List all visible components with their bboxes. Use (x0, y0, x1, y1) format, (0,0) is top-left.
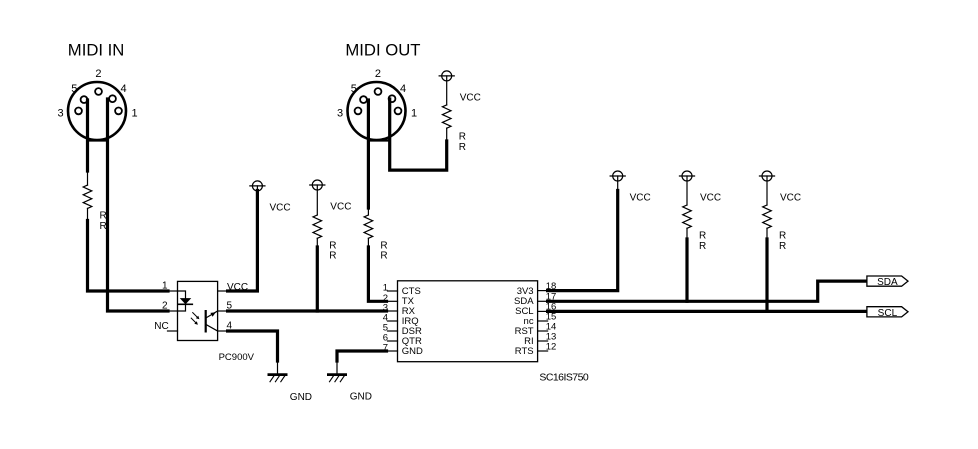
svg-text:5: 5 (71, 83, 77, 95)
U2 pin 5 stub (218, 310, 228, 312)
J1 pin number 1 (132, 107, 138, 119)
U1 pin name RTS (515, 346, 534, 357)
U1 pin 15 stub (538, 320, 548, 322)
U1 pin 5 stub (388, 330, 398, 332)
svg-text:VCC: VCC (630, 192, 651, 203)
R6 value label R (779, 241, 786, 252)
VCC supply symbol for U2 (250, 181, 265, 191)
svg-text:GND: GND (402, 346, 423, 357)
U1 pin name nc (524, 316, 534, 327)
R5 value label R (699, 241, 706, 252)
U1 pin name SCL (515, 306, 533, 317)
U1 pin 1 stub (388, 290, 398, 292)
U1 pin number 18 (546, 281, 557, 292)
wire U2 pin5 to U1 RX net (228, 309, 387, 312)
U2 pin number 1 (162, 281, 168, 292)
label MIDI IN (68, 41, 125, 60)
U1 pin number 6 (383, 333, 388, 344)
SCL node connector flag (867, 307, 908, 317)
U2 NC label (154, 321, 168, 332)
svg-text:GND: GND (350, 392, 372, 403)
U1 pin 3 stub (388, 310, 398, 312)
VCC label for R5 supply (700, 193, 721, 204)
R2 value label R (459, 142, 466, 153)
U1 pin 2 stub (388, 300, 398, 302)
U2 value label PC900V (219, 352, 255, 363)
R6 name label R (779, 231, 786, 242)
U2 pin number 2 (162, 300, 168, 311)
U1 pin number 1 (383, 283, 388, 294)
svg-text:R: R (380, 240, 387, 251)
U1 pin number 7 (383, 343, 388, 354)
VCC supply symbol for 3V3 (610, 171, 625, 191)
VCC label for R3 supply (330, 202, 351, 213)
R2 name label R (459, 132, 466, 143)
U2 phototransistor (206, 311, 218, 331)
label MIDI OUT (345, 41, 420, 60)
U1 pin name RI (524, 336, 534, 347)
R3 value label R (329, 251, 336, 262)
svg-text:2: 2 (162, 300, 168, 311)
wire U2 pin4 to ground (228, 331, 278, 361)
svg-text:3: 3 (337, 107, 343, 119)
svg-text:1: 1 (411, 107, 417, 119)
svg-text:NC: NC (154, 321, 168, 332)
resistor R3 (313, 215, 322, 247)
svg-text:12: 12 (546, 341, 557, 352)
J1 pin number 2 (95, 68, 101, 80)
VCC supply symbol above R2 (439, 71, 454, 81)
U1 pin number 2 (383, 293, 388, 304)
U1 pin 13 stub (538, 340, 548, 342)
svg-text:4: 4 (121, 83, 127, 95)
wire R6 to SCL net junction (765, 239, 768, 311)
U1 pin name RX (402, 306, 416, 317)
U1 pin 7 stub (388, 350, 398, 352)
U2 internal LED (178, 291, 193, 311)
U2 pin 1 stub (168, 290, 178, 292)
svg-text:R: R (329, 251, 336, 262)
U2 pin 4 stub (218, 330, 228, 332)
U2 pin 2 stub (168, 310, 178, 312)
svg-text:R: R (459, 142, 466, 153)
optocoupler U2 PC900V body (178, 281, 218, 340)
IC U1 SC16IS750 body (398, 281, 538, 362)
svg-text:R: R (380, 251, 387, 262)
U1 pin name DSR (402, 326, 422, 337)
U2 light arrow b (191, 318, 198, 325)
R1 value label R (100, 221, 107, 232)
J2 pin number 4 (400, 83, 406, 95)
svg-text:5: 5 (351, 83, 357, 95)
R5 name label R (699, 231, 706, 242)
ground symbol GND1 (269, 361, 286, 382)
svg-text:MIDI IN: MIDI IN (68, 41, 125, 60)
VCC supply symbol for R3 (310, 180, 325, 215)
U1 value label SC16IS750 (539, 371, 588, 383)
wire J1 pin4 down to U1 pin2 (108, 99, 169, 311)
svg-text:SCL: SCL (878, 308, 898, 319)
U2 VCC pin label (227, 282, 248, 293)
svg-text:VCC: VCC (270, 203, 291, 214)
U1 pin 6 stub (388, 340, 398, 342)
svg-text:SDA: SDA (877, 277, 898, 288)
U1 pin number 17 (546, 291, 557, 302)
svg-text:2: 2 (95, 68, 101, 80)
J2 pin number 3 (337, 107, 343, 119)
U2 pin number 4 (227, 321, 233, 332)
U1 pin number 15 (546, 311, 557, 322)
U1 pin name GND (402, 346, 423, 357)
U1 pin name SDA (514, 296, 534, 307)
resistor R6 (763, 205, 772, 239)
svg-text:PC900V: PC900V (219, 352, 255, 363)
MIDI OUT connector J2 (348, 82, 406, 140)
U1 pin number 3 (383, 303, 388, 314)
U1 pin 4 stub (388, 320, 398, 322)
wire R4 to U1 TX pin (368, 247, 386, 301)
U1 pin name IRQ (402, 316, 419, 327)
wire J2 pin5 down to R4 (367, 100, 370, 208)
wire SDA net U1 pin17 to connector (548, 281, 867, 301)
svg-text:RTS: RTS (515, 346, 534, 357)
ground symbol GND2 (328, 361, 345, 382)
resistor R5 (683, 205, 692, 239)
wire GND2 to U1 GND pin (337, 351, 387, 361)
U1 pin name CTS (402, 286, 421, 297)
svg-text:R: R (329, 240, 336, 251)
U1 pin 17 stub (538, 300, 548, 302)
GND1 label (290, 392, 312, 403)
svg-text:R: R (779, 231, 786, 242)
SDA node connector flag (867, 276, 908, 286)
U1 pin number 16 (546, 302, 557, 313)
wire R1 to U1 pin1 (88, 221, 169, 292)
U1 pin number 5 (383, 323, 388, 334)
U2 VCC pin stub (218, 290, 228, 292)
U1 pin number 14 (546, 321, 557, 332)
VCC label for R6 supply (780, 193, 801, 204)
U1 pin name TX (402, 296, 415, 307)
svg-text:3: 3 (57, 107, 63, 119)
R3 name label R (329, 240, 336, 251)
J2 pin number 1 (411, 107, 417, 119)
svg-text:VCC: VCC (780, 193, 801, 204)
svg-text:R: R (100, 210, 107, 221)
J2 pin number 5 (351, 83, 357, 95)
svg-text:7: 7 (383, 343, 388, 354)
svg-text:1: 1 (132, 107, 138, 119)
R4 value label R (380, 251, 387, 262)
U2 pin 3 NC stub (168, 330, 178, 332)
resistor R4 (364, 208, 373, 247)
J2 pin number 2 (375, 68, 381, 80)
VCC label for 3V3 supply (630, 192, 651, 203)
R4 name label R (380, 240, 387, 251)
svg-text:GND: GND (290, 392, 312, 403)
wire R5 to SDA net junction (685, 239, 688, 301)
R1 name label R (100, 210, 107, 221)
J1 pin number 4 (121, 83, 127, 95)
svg-text:R: R (699, 231, 706, 242)
wire R3 to RX net junction (316, 247, 319, 311)
SDA node label (877, 277, 898, 288)
GND2 label (350, 392, 372, 403)
wire SCL net U1 pin16 to connector (548, 310, 867, 313)
U1 pin number 4 (383, 313, 388, 324)
svg-text:1: 1 (162, 281, 168, 292)
svg-text:VCC: VCC (330, 202, 351, 213)
U1 pin name RST (515, 326, 534, 337)
U1 pin name QTR (402, 336, 422, 347)
U1 pin 14 stub (538, 330, 548, 332)
U1 pin number 13 (546, 331, 557, 342)
J1 pin number 3 (57, 107, 63, 119)
MIDI IN connector J1 (68, 82, 126, 140)
svg-text:VCC: VCC (700, 193, 721, 204)
VCC label above R2 (460, 93, 481, 104)
J1 pin number 5 (71, 83, 77, 95)
U1 pin 18 stub (538, 290, 548, 292)
svg-text:R: R (699, 241, 706, 252)
VCC supply symbol for R6 (760, 171, 775, 205)
VCC label for U2 supply (270, 203, 291, 214)
resistor R1 (83, 171, 92, 221)
SCL node label (878, 308, 898, 319)
wire J1 pin5 down to R1 (86, 100, 89, 171)
resistor R2 (442, 76, 451, 141)
VCC supply symbol for R5 (680, 171, 695, 205)
wire J2 pin4 to R2 bottom (390, 99, 447, 170)
svg-text:R: R (100, 221, 107, 232)
U2 pin number 5 (227, 300, 233, 311)
wire VCC to U1 pin18 (548, 191, 618, 291)
U1 pin name 3V3 (517, 286, 534, 297)
wire VCC to U2 VCC pin (228, 191, 258, 292)
svg-text:SC16IS750: SC16IS750 (539, 371, 588, 383)
svg-text:2: 2 (375, 68, 381, 80)
svg-text:R: R (779, 241, 786, 252)
U1 pin number 12 (546, 341, 557, 352)
svg-text:R: R (459, 132, 466, 143)
svg-text:VCC: VCC (460, 93, 481, 104)
U1 pin 12 stub (538, 350, 548, 352)
svg-text:4: 4 (400, 83, 406, 95)
svg-text:MIDI OUT: MIDI OUT (345, 41, 420, 60)
U1 pin 16 stub (538, 310, 548, 312)
U2 light arrow a (193, 313, 200, 320)
